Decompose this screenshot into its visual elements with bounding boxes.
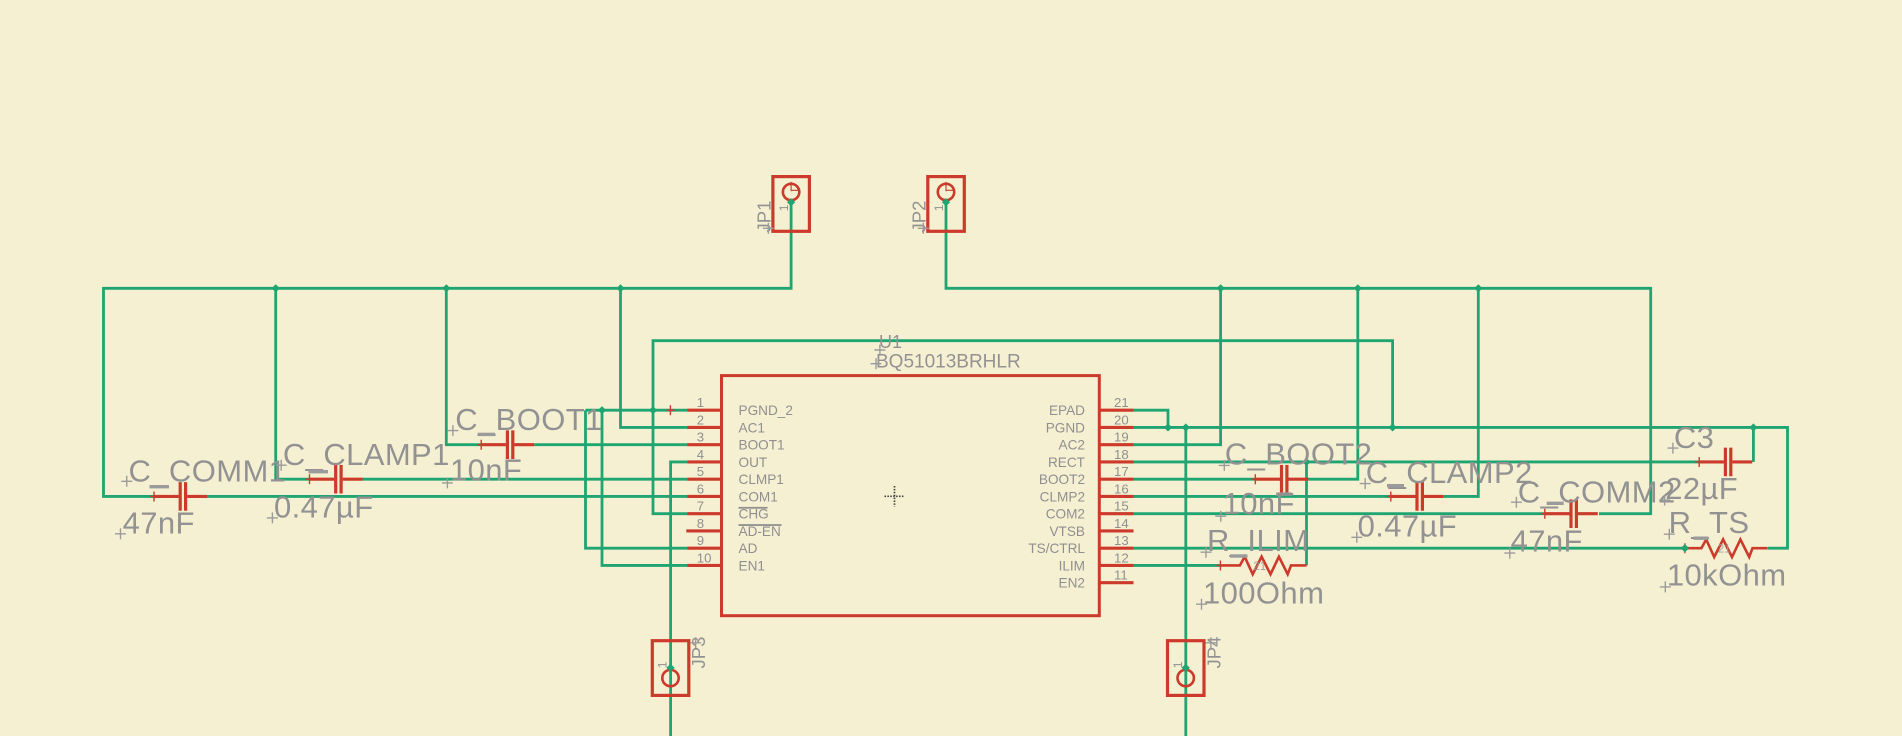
wire pin 7 CHG up and over top to PGND line <box>653 341 1393 514</box>
dash mark near C_CLAMP2 <box>1387 484 1404 487</box>
svg-text:22µF: 22µF <box>1665 471 1738 506</box>
svg-text:1: 1 <box>697 395 704 410</box>
junction dot pin1 line / EN1 branch <box>598 406 606 414</box>
svg-text:1: 1 <box>1171 661 1185 668</box>
junction dot TS line / R_TS lead <box>1681 544 1689 552</box>
origin cross of C_CLAMP2 label <box>1360 478 1371 489</box>
svg-text:14: 14 <box>1114 516 1129 531</box>
svg-text:EPAD: EPAD <box>1049 403 1085 418</box>
wire branch right rail down to BOOT2 node <box>1307 288 1358 479</box>
jumper JP3 <box>652 641 689 696</box>
svg-text:VTSB: VTSB <box>1049 524 1085 539</box>
svg-text:AC1: AC1 <box>739 420 765 435</box>
origin cross of 10nF label <box>1215 511 1226 522</box>
origin cross of U1 name <box>874 345 885 356</box>
wire down to pin 9 AD <box>586 410 689 548</box>
pin 10 stub <box>688 564 722 567</box>
junction dot right rail / C_CLAMP2 branch <box>1474 284 1482 292</box>
wire pin 13 TS/CTRL to R_TS left lead <box>1134 547 1685 550</box>
pin 18 stub <box>1099 460 1133 463</box>
svg-text:1: 1 <box>932 204 946 211</box>
svg-text:9: 9 <box>697 533 704 548</box>
junction dot PGND line / C3 branch <box>1749 423 1757 431</box>
wire pin 15 COM2 to C_COMM2 left lead <box>1134 512 1545 515</box>
pin 7 stub <box>688 512 722 515</box>
svg-text:CHG: CHG <box>739 507 769 522</box>
svg-text:OUT: OUT <box>739 455 768 470</box>
pin 1 circle of JP1 <box>783 184 799 200</box>
svg-text:12: 12 <box>1114 550 1129 565</box>
dash mark near C_CLAMP1 <box>309 470 329 473</box>
svg-text:C_COMM1: C_COMM1 <box>129 454 287 489</box>
dash mark near C_COMM2 <box>1547 502 1564 505</box>
origin cross of 0.47uF label <box>267 512 278 523</box>
origin cross of R_ILIM <box>1216 560 1225 570</box>
svg-text:10nF: 10nF <box>450 452 522 487</box>
jumper JP1 <box>773 177 810 232</box>
junction dot TS line / R_TS lead (redraw over origin cross) <box>1681 544 1689 552</box>
svg-text:16: 16 <box>1114 481 1129 496</box>
wire pin 12 ILIM to R_ILIM left lead <box>1134 564 1221 567</box>
pin 17 stub <box>1099 478 1133 481</box>
svg-text:TS/CTRL: TS/CTRL <box>1028 541 1085 556</box>
jumper JP2 <box>928 177 965 232</box>
wire C3 right lead up to PGND line <box>1752 427 1755 462</box>
op-amp U1 BQ51013BRHLR body <box>722 376 1100 616</box>
junction dot PGND line / JP4 branch <box>1182 423 1190 431</box>
resistor R_TS <box>1685 539 1768 557</box>
svg-text:ILIM: ILIM <box>1059 558 1085 573</box>
junction dot right rail / AC2 branch <box>1217 284 1225 292</box>
origin cross of C_CLAMP1 label <box>276 460 287 471</box>
origin cross of C_COMM1 <box>150 491 159 501</box>
svg-text:JP3: JP3 <box>688 637 709 669</box>
origin cross of C_BOOT1 <box>477 440 486 450</box>
dash mark near R_ILIM <box>1230 554 1248 557</box>
origin cross of R_TS <box>1681 543 1690 553</box>
origin crosshair of U1 <box>885 486 905 507</box>
svg-text:R_ILIM: R_ILIM <box>1207 523 1309 558</box>
capacitor C3 <box>1699 448 1752 477</box>
origin cross of C3 <box>1695 457 1704 467</box>
origin cross of C_BOOT1 label <box>447 425 458 436</box>
pin 5 stub <box>688 478 722 481</box>
pin 15 stub <box>1099 512 1133 515</box>
svg-text:COM2: COM2 <box>1046 507 1085 522</box>
origin cross of C_COMM2 <box>1541 509 1550 519</box>
capacitor C_COMM2 <box>1545 499 1598 528</box>
pin 4 stub <box>688 460 722 463</box>
wire down to pin 10 EN1 <box>602 410 688 565</box>
svg-text:RECT: RECT <box>1048 455 1085 470</box>
pin 8 stub <box>686 529 721 532</box>
svg-text:13: 13 <box>1114 533 1129 548</box>
svg-text:COM1: COM1 <box>739 489 778 504</box>
svg-text:AD: AD <box>739 541 758 556</box>
wire pin 21 EPAD down to PGND line <box>1134 410 1169 427</box>
origin cross of C_COMM2 label <box>1511 497 1522 508</box>
svg-text:5: 5 <box>697 464 704 479</box>
dash mark near C_BOOT1 <box>478 433 496 436</box>
wire C_CLAMP1 right lead to pin 5 CLMP1 <box>363 478 689 481</box>
svg-text:47nF: 47nF <box>123 506 195 541</box>
junction dot right rail / BOOT2 branch <box>1354 284 1362 292</box>
wire dot at JP3 pin 1 <box>666 664 674 672</box>
origin cross of C_BOOT2 <box>1251 474 1260 484</box>
capacitor C_BOOT2 <box>1255 465 1308 494</box>
pin 11 stub <box>1099 581 1133 584</box>
pin 21 stub <box>1099 409 1133 412</box>
origin cross of JP3 <box>690 637 701 648</box>
origin cross of C_BOOT2 label <box>1219 460 1230 471</box>
origin cross of C_CLAMP2 <box>1387 491 1396 501</box>
dash mark near R_TS <box>1694 537 1709 540</box>
jumper JP4 <box>1168 641 1205 696</box>
wire branch rail to C_CLAMP1 left lead <box>276 288 310 479</box>
svg-text:21: 21 <box>1114 395 1129 410</box>
pin 13 stub <box>1099 547 1133 550</box>
svg-text:CLMP1: CLMP1 <box>739 472 784 487</box>
svg-text:10kOhm: 10kOhm <box>1667 557 1787 592</box>
junction dot left rail / C_CLAMP1 branch <box>272 284 280 292</box>
wire dot at JP4 pin 1 <box>1182 664 1190 672</box>
pin 3 stub <box>688 443 722 446</box>
svg-text:PGND: PGND <box>1046 420 1085 435</box>
pin 9 stub <box>688 547 722 550</box>
pin 19 stub <box>1099 443 1133 446</box>
origin cross of JP4 <box>1205 637 1216 648</box>
svg-text:11: 11 <box>1114 568 1128 583</box>
svg-text:10nF: 10nF <box>1223 486 1295 521</box>
svg-text:CLMP2: CLMP2 <box>1040 489 1085 504</box>
overline of pin name CHG <box>739 507 768 509</box>
wire PGND junction down through JP4 <box>1184 427 1187 736</box>
origin cross of 47nF label <box>115 528 126 539</box>
wire pin 16 CLMP2 to C_CLAMP2 left lead <box>1134 495 1391 498</box>
wire C_BOOT1 right lead to pin 3 BOOT1 <box>534 443 688 446</box>
svg-text:47nF: 47nF <box>1511 524 1583 559</box>
pin 1 stub <box>688 409 722 412</box>
svg-text:C_COMM2: C_COMM2 <box>1518 474 1676 509</box>
junction dot RECT line / R_ILIM vertical <box>1302 458 1310 466</box>
wire pin 19 AC2 up to right rail <box>1134 288 1221 444</box>
svg-text:C_BOOT2: C_BOOT2 <box>1225 437 1373 472</box>
svg-text:0.47µF: 0.47µF <box>1358 509 1458 544</box>
origin cross of 10kOhm label <box>1660 581 1671 592</box>
junction dot PGND line / EPAD branch <box>1164 423 1172 431</box>
svg-text:1: 1 <box>656 661 670 668</box>
origin cross of JP1 <box>763 223 774 234</box>
capacitor C_CLAMP1 <box>310 465 363 494</box>
red origin cross on pin 1 wire <box>666 405 675 415</box>
svg-text:100Ohm: 100Ohm <box>1203 575 1324 610</box>
svg-text:19: 19 <box>1114 430 1129 445</box>
svg-text:6: 6 <box>697 481 704 496</box>
pin 20 stub <box>1099 426 1133 429</box>
wire branch rail to C_BOOT1 left lead <box>446 288 481 444</box>
origin cross of JP2 <box>918 223 929 234</box>
pin 16 stub <box>1099 495 1133 498</box>
svg-text:20: 20 <box>1114 412 1129 427</box>
svg-text:10: 10 <box>697 550 712 565</box>
svg-text:C3: C3 <box>1674 420 1714 455</box>
resistor R_ILIM <box>1220 557 1306 575</box>
pin 1 circle of JP3 <box>662 670 678 686</box>
capacitor C_CLAMP2 <box>1391 482 1444 511</box>
wire pin 18 RECT to C3 left lead <box>1134 461 1700 464</box>
pin 1 circle of JP2 <box>938 184 954 200</box>
origin cross of U1 value <box>871 358 882 369</box>
pin 14 stub <box>1099 529 1133 532</box>
svg-text:BOOT2: BOOT2 <box>1039 472 1085 487</box>
overline of pin name AD-EN <box>739 524 782 526</box>
svg-text:7: 7 <box>697 499 704 514</box>
svg-text:JP4: JP4 <box>1203 637 1224 669</box>
origin cross of 22uF label <box>1659 495 1670 506</box>
wire pin 4 OUT down through JP3 <box>671 462 688 736</box>
pin 2 stub <box>688 426 722 429</box>
svg-text:21: 21 <box>1718 544 1731 556</box>
svg-text:4: 4 <box>697 447 704 462</box>
svg-text:EN1: EN1 <box>739 558 765 573</box>
origin cross of 10nF label <box>442 477 453 488</box>
origin cross of C_CLAMP1 <box>306 474 315 484</box>
pin 1 circle of JP4 <box>1178 670 1194 686</box>
wire pin 20 PGND line to right, down to R_TS right lead <box>1134 427 1788 548</box>
svg-text:BOOT1: BOOT1 <box>739 438 785 453</box>
wire branch rail down to pin 2 AC1 <box>621 288 689 427</box>
svg-text:AD-EN: AD-EN <box>739 524 781 539</box>
wire end dot at JP2 pin 1 <box>942 198 950 206</box>
origin cross of R_TS label <box>1664 529 1675 540</box>
junction dot left rail / C_BOOT1 branch <box>442 284 450 292</box>
junction dot left rail / AC1 branch <box>616 284 624 292</box>
svg-text:15: 15 <box>1114 499 1129 514</box>
pin 12 stub <box>1099 564 1133 567</box>
origin cross of 47nF label <box>1504 548 1515 559</box>
dash mark near C_COMM1 <box>150 485 170 488</box>
svg-text:AC2: AC2 <box>1059 438 1085 453</box>
wire end dot at JP1 pin 1 <box>787 198 795 206</box>
svg-text:U1: U1 <box>879 332 902 352</box>
origin cross of 100Ohm label <box>1196 599 1207 610</box>
svg-text:17: 17 <box>1114 464 1129 479</box>
svg-text:PGND_2: PGND_2 <box>739 403 793 418</box>
wire node to pin 1 PGND_2 <box>586 409 689 412</box>
wire branch right rail down to C_CLAMP2 right lead <box>1444 288 1478 496</box>
origin cross of R_ILIM label <box>1201 547 1212 558</box>
svg-text:C_BOOT1: C_BOOT1 <box>455 402 603 437</box>
origin cross of C_COMM1 label <box>121 476 132 487</box>
svg-text:R_TS: R_TS <box>1669 505 1750 540</box>
wire JP1 to left rail, down to C_COMM1 left lead (net COMM1/GND rail) <box>104 202 792 497</box>
svg-text:0.47µF: 0.47µF <box>274 490 374 525</box>
svg-text:C_CLAMP1: C_CLAMP1 <box>283 437 450 472</box>
svg-text:3: 3 <box>697 430 704 445</box>
origin cross of C3 label <box>1667 443 1678 454</box>
wire JP2 down to right rail, down to C_COMM2 right lead <box>946 202 1651 514</box>
svg-text:1: 1 <box>777 204 791 211</box>
capacitor C_COMM1 <box>154 482 207 511</box>
svg-text:8: 8 <box>697 516 704 531</box>
wire RECT junction down to R_ILIM right lead <box>1305 462 1308 566</box>
svg-text:2: 2 <box>697 412 704 427</box>
dash mark near C_BOOT2 <box>1276 492 1292 495</box>
pin 6 stub <box>688 495 722 498</box>
junction dot pin1 line / CHG vertical <box>649 406 657 414</box>
capacitor C_BOOT1 <box>481 430 534 459</box>
svg-text:EN2: EN2 <box>1059 576 1085 591</box>
origin cross of 0.47uF label <box>1351 532 1362 543</box>
svg-text:BQ51013BRHLR: BQ51013BRHLR <box>876 352 1021 373</box>
wire pin 17 BOOT2 to C_BOOT2 left lead <box>1134 478 1256 481</box>
svg-text:18: 18 <box>1114 447 1129 462</box>
junction dot PGND line / top wire <box>1389 423 1397 431</box>
svg-text:21: 21 <box>1253 561 1266 573</box>
wire C_COMM1 right lead to pin 6 COM1 <box>207 495 688 498</box>
